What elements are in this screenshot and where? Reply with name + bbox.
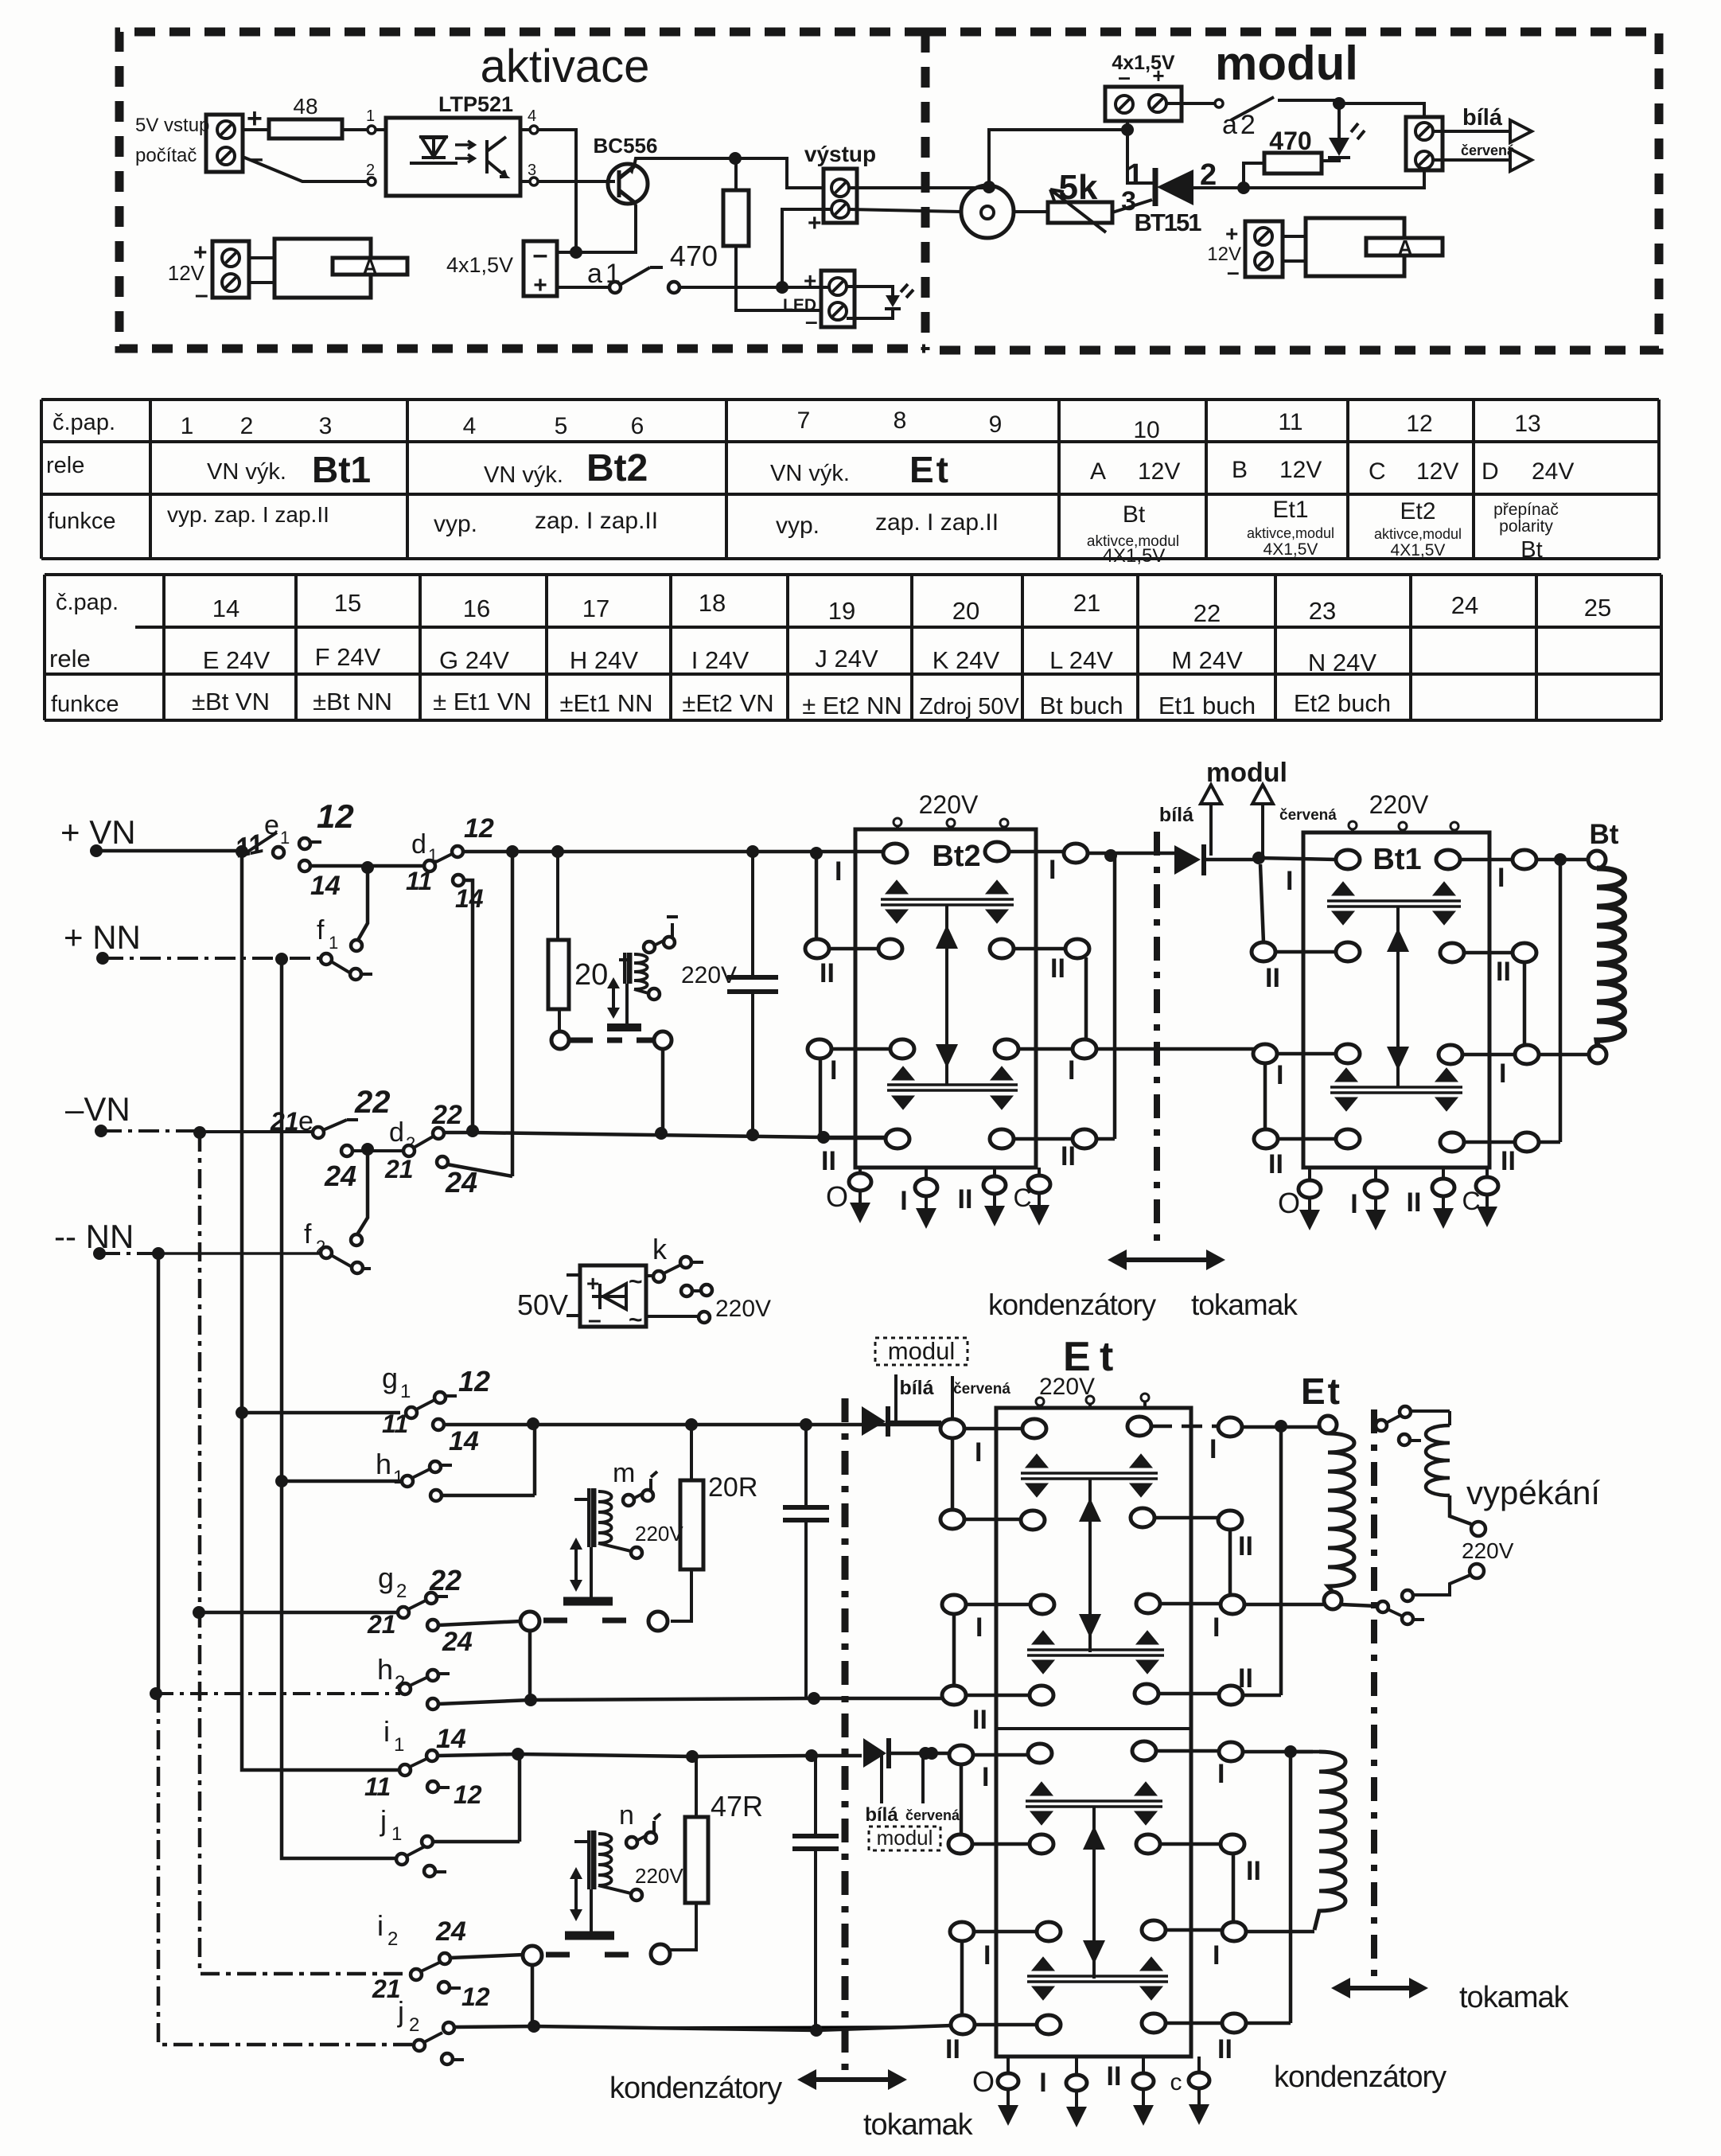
wire d1-14 contact down to -VN bus — [464, 880, 473, 1131]
resistor R3 470 modul — [1264, 153, 1322, 173]
Bt2 row4 contacts — [886, 1129, 909, 1148]
Et upper actuator arrow — [1088, 1479, 1092, 1652]
svg-text:±Et2 VN: ±Et2 VN — [682, 689, 773, 717]
wire a1 to LED plus node — [679, 286, 782, 289]
Et left link row7-row8 — [960, 1941, 964, 2015]
Et bottom terminal II — [1142, 2057, 1145, 2105]
svg-text:H 24V: H 24V — [570, 646, 638, 674]
transistor Q1 BC556 — [608, 164, 648, 204]
coil Et1 outer — [1319, 1416, 1337, 1433]
wire -VN bus continuation — [444, 1133, 886, 1137]
wire anode bus under terminal block — [1204, 170, 1424, 188]
Bt2 bottom terminal I — [925, 1168, 928, 1208]
resistor R5 20R — [671, 1425, 691, 1621]
svg-text:Bt1: Bt1 — [1373, 843, 1421, 876]
fuse F1 with ammeter A — [249, 258, 275, 283]
switch e1 — [247, 832, 277, 852]
svg-text:II: II — [1107, 2061, 1122, 2092]
wire pin1 to optocoupler — [376, 128, 386, 131]
Bt2 left column link row1-row2 — [815, 853, 819, 940]
svg-text:+: + — [586, 1271, 599, 1296]
Et row2 contacts — [940, 1510, 964, 1529]
svg-text:II: II — [1050, 953, 1065, 984]
svg-text:8: 8 — [894, 407, 907, 434]
moving contact dashes — [570, 1038, 653, 1043]
moving core arrow — [612, 981, 615, 1016]
armature plate n — [590, 1889, 593, 1932]
svg-text:Bt buch: Bt buch — [1039, 692, 1123, 719]
svg-text:2: 2 — [1200, 158, 1217, 192]
svg-text:počítač: počítač — [135, 145, 197, 166]
svg-text:modul: modul — [877, 1826, 933, 1850]
svg-text:7: 7 — [797, 407, 811, 434]
svg-text:1: 1 — [366, 107, 375, 125]
svg-text:červená: červená — [1279, 807, 1337, 824]
Et row8 contacts — [951, 2015, 975, 2034]
svg-text:2: 2 — [409, 2014, 419, 2036]
wire vystup plus to lamp and LED node — [782, 209, 961, 287]
svg-text:m: m — [613, 1458, 635, 1488]
wire j2 top to Et return bus — [454, 2025, 952, 2030]
switch k — [646, 1274, 653, 1277]
Bt2 contact pair symbols lower — [887, 1085, 1018, 1090]
Bt1 contact pair symbols upper — [1327, 901, 1461, 906]
svg-text:48: 48 — [293, 94, 317, 119]
svg-text:modul: modul — [1215, 37, 1358, 90]
svg-text:bílá: bílá — [1462, 105, 1503, 131]
svg-text:aktivce,modul: aktivce,modul — [1374, 526, 1462, 542]
Et lower lower pairs — [1027, 1976, 1168, 1982]
svg-text:22: 22 — [1193, 599, 1221, 627]
svg-text:12V: 12V — [1279, 457, 1322, 483]
wire g1-14 to Et upper bus — [444, 1423, 941, 1427]
svg-text:± Et2 NN: ± Et2 NN — [802, 692, 902, 719]
svg-text:O: O — [826, 1180, 848, 1213]
vertical bus -VN to switches g2 i2 — [200, 1133, 411, 1974]
svg-text:11: 11 — [364, 1772, 391, 1801]
svg-text:vypékání: vypékání — [1466, 1474, 1600, 1511]
svg-text:i: i — [384, 1715, 390, 1748]
svg-text:20: 20 — [574, 958, 608, 992]
svg-text:II: II — [1238, 1663, 1253, 1694]
svg-text:j: j — [380, 1804, 387, 1837]
node 470 tap — [1237, 181, 1250, 194]
svg-text:24: 24 — [435, 1916, 466, 1947]
svg-text:+ NN: + NN — [64, 918, 141, 956]
svg-text:24: 24 — [445, 1166, 477, 1199]
svg-text:k: k — [652, 1233, 668, 1265]
Et bottom terminal I — [1075, 2057, 1078, 2107]
svg-text:I: I — [835, 856, 842, 887]
Bt1 bottom terminal C — [1485, 1168, 1489, 1207]
svg-text:-- NN: -- NN — [54, 1218, 134, 1255]
svg-text:–: – — [533, 240, 548, 270]
pin 3 of U1 — [530, 177, 538, 185]
svg-text:470: 470 — [1269, 127, 1311, 155]
node emitter junction — [729, 152, 742, 165]
wire to vypekani coil — [1411, 1411, 1450, 1425]
wire e1 lower to d1 — [310, 864, 425, 868]
svg-text:14: 14 — [436, 1724, 466, 1754]
svg-text:Bt: Bt — [1123, 501, 1146, 528]
svg-text:G 24V: G 24V — [439, 646, 509, 674]
svg-text:16: 16 — [463, 595, 490, 622]
svg-text:3: 3 — [319, 413, 333, 439]
diode D5 between Bt2 and Bt1 — [1174, 845, 1201, 875]
svg-text:h: h — [376, 1448, 391, 1480]
svg-text:11: 11 — [382, 1409, 408, 1438]
switch vypekani upper — [1376, 1420, 1387, 1431]
wire vystup top to modul lamp node — [849, 186, 989, 189]
wire +NN bus — [103, 957, 321, 960]
svg-text:12V: 12V — [1416, 458, 1458, 485]
svg-text:I 24V: I 24V — [691, 646, 750, 674]
thyristor V1 BT151 — [1153, 168, 1158, 206]
vertical bus +NN to switches h1 j1 — [282, 959, 397, 1858]
wire i2-24 to n contact — [450, 1955, 524, 1958]
Et row7 contacts — [950, 1922, 974, 1941]
svg-text:21: 21 — [270, 1107, 299, 1136]
Bt1 bottom terminal O — [1308, 1168, 1311, 1210]
svg-text:červená: červená — [1461, 142, 1516, 158]
switch h1 — [275, 1475, 288, 1487]
svg-text:1: 1 — [181, 413, 194, 439]
svg-text:12: 12 — [1406, 411, 1432, 437]
svg-text:e: e — [264, 810, 279, 840]
svg-text:bílá: bílá — [1159, 804, 1193, 826]
svg-text:F 24V: F 24V — [315, 643, 381, 671]
wire LED plus from node — [782, 286, 829, 289]
svg-text:11: 11 — [1278, 409, 1302, 435]
svg-text:aktivce,modul: aktivce,modul — [1247, 525, 1334, 541]
wire 220V lower to switch — [1413, 1575, 1470, 1595]
resistor R6 47R — [670, 1756, 696, 1950]
wire battery plus to switch a1 — [557, 286, 609, 289]
wire +VN top bus — [463, 850, 884, 854]
connector arrow cervena — [1510, 149, 1532, 171]
svg-text:12: 12 — [454, 1780, 482, 1809]
terminal block 12V aktivace — [212, 241, 249, 298]
svg-text:220V: 220V — [1462, 1538, 1514, 1563]
connector arrow bila — [1510, 120, 1532, 142]
fuse F2 with ammeter A modul — [1283, 236, 1306, 261]
svg-text:–: – — [588, 1307, 602, 1333]
node lamp top — [983, 181, 995, 193]
svg-text:h: h — [377, 1653, 393, 1686]
svg-text:23: 23 — [1309, 597, 1336, 625]
svg-text:14: 14 — [212, 595, 239, 622]
capacitor C1 — [751, 852, 754, 1135]
svg-text:II: II — [821, 1146, 836, 1176]
svg-text:t: t — [1100, 1334, 1113, 1380]
Bt1 contact pair symbols lower — [1330, 1087, 1462, 1093]
terminal 220V vypekani lower — [1470, 1564, 1484, 1578]
switch h2 — [150, 1687, 162, 1700]
wire pin3 to Q1 base — [520, 180, 615, 183]
svg-text:Et: Et — [1301, 1370, 1342, 1412]
wire j1 top to bus junction — [433, 1754, 520, 1842]
transformer T1 l with 220V — [619, 958, 629, 961]
svg-text:č.pap.: č.pap. — [56, 590, 119, 615]
Et left link row3-row4 — [952, 1614, 956, 1686]
svg-text:zap. I zap.II: zap. I zap.II — [535, 508, 658, 534]
moving contact dashes m — [543, 1618, 637, 1624]
Et upper contact pairs — [1021, 1473, 1158, 1479]
svg-text:22: 22 — [431, 1100, 462, 1130]
wire f2 up to d2 node — [357, 1149, 368, 1234]
svg-text:f: f — [317, 915, 325, 945]
svg-text:±Bt NN: ±Bt NN — [313, 688, 392, 715]
PART5:ETBLOCKS — [609, 1334, 1600, 2142]
svg-text:aktivace: aktivace — [481, 41, 650, 92]
svg-text:2: 2 — [396, 1581, 407, 1602]
Bt2 bottom terminal II — [993, 1168, 996, 1206]
svg-text:f: f — [304, 1219, 312, 1250]
svg-text:13: 13 — [1514, 411, 1540, 437]
Bt1 row4 contacts — [1254, 1129, 1278, 1148]
svg-text:19: 19 — [828, 597, 855, 625]
coil Et2 outer — [1295, 1750, 1319, 1754]
switch a2 — [1215, 99, 1223, 107]
svg-text:2: 2 — [240, 413, 254, 439]
terminal block vystup — [824, 169, 857, 223]
svg-text:Et: Et — [909, 449, 951, 490]
wire -VN bus — [101, 1129, 200, 1133]
lead cervena Bt with arrow — [1261, 804, 1264, 858]
svg-text:Zdroj 50V: Zdroj 50V — [919, 694, 1019, 719]
svg-text:I: I — [1217, 1759, 1225, 1789]
Bt1 right link row2-row3 — [1523, 961, 1527, 1046]
separator arrow Et left — [813, 2077, 891, 2082]
svg-text:12: 12 — [461, 1983, 490, 2011]
Et row6 contacts — [948, 1834, 972, 1854]
svg-text:6: 6 — [631, 413, 644, 439]
wire k 220V — [646, 1315, 699, 1318]
Bt2 right column link row2-row3 — [1084, 957, 1088, 1040]
svg-text:g: g — [378, 1561, 394, 1594]
svg-text:Et1 buch: Et1 buch — [1158, 692, 1256, 719]
svg-text:II: II — [1238, 1531, 1253, 1561]
svg-text:č.pap.: č.pap. — [53, 410, 115, 435]
wire battery to switch a2 — [1167, 102, 1214, 105]
svg-text:tokamak: tokamak — [1459, 1981, 1570, 2014]
wire II return bus upper — [531, 1698, 943, 1700]
svg-text:22: 22 — [429, 1564, 461, 1597]
node battery minus — [570, 246, 582, 259]
svg-text:i: i — [377, 1909, 384, 1942]
svg-text:470: 470 — [670, 240, 718, 272]
svg-text:14: 14 — [455, 884, 484, 913]
svg-text:1: 1 — [329, 933, 338, 953]
svg-text:červená: červená — [953, 1381, 1010, 1398]
svg-text:O: O — [1278, 1187, 1300, 1219]
terminal block LED — [821, 271, 855, 327]
svg-text:12: 12 — [458, 1365, 490, 1398]
svg-text:D: D — [1482, 458, 1499, 485]
svg-text:+: + — [808, 210, 822, 236]
svg-text:J 24V: J 24V — [815, 645, 878, 673]
svg-text:1: 1 — [391, 1823, 402, 1845]
wire bila to arrow — [1434, 130, 1510, 133]
svg-text:+: + — [533, 272, 547, 298]
svg-text:II: II — [1265, 963, 1280, 993]
svg-text:M 24V: M 24V — [1171, 646, 1243, 674]
svg-text:17: 17 — [582, 595, 609, 622]
svg-text:± Et1 VN: ± Et1 VN — [433, 688, 531, 715]
transformer T3 n with 220V — [574, 1840, 589, 1843]
svg-text:Bt2: Bt2 — [932, 840, 980, 873]
modul dotted label Et upper — [875, 1338, 968, 1365]
svg-text:funkce: funkce — [51, 692, 119, 717]
switch vypekani lower — [1402, 1590, 1413, 1601]
moving contact dashes n — [546, 1952, 637, 1958]
Et lower actuator arrow — [1092, 1807, 1096, 1979]
svg-text:BT151: BT151 — [1134, 209, 1201, 236]
svg-text:21: 21 — [384, 1155, 414, 1183]
pin 2 of U1 — [368, 177, 376, 185]
svg-text:II: II — [1501, 1146, 1516, 1176]
resistor 48 — [243, 128, 367, 131]
svg-text:II: II — [972, 1705, 987, 1735]
svg-text:I: I — [982, 1762, 989, 1792]
svg-text:rele: rele — [46, 453, 84, 478]
rectifier 50V box — [580, 1265, 646, 1327]
relay block Bt2 — [855, 829, 1036, 1168]
diode D4 Et lower feed — [863, 1738, 886, 1768]
svg-text:Et1: Et1 — [1272, 497, 1308, 523]
lead bila Et upper — [894, 1374, 897, 1422]
svg-text:K 24V: K 24V — [933, 646, 1000, 674]
svg-text:výstup: výstup — [804, 142, 876, 166]
svg-text:4x1,5V: 4x1,5V — [446, 253, 513, 277]
svg-text:j: j — [397, 1995, 404, 2028]
svg-text:B: B — [1232, 457, 1248, 483]
svg-text:n: n — [619, 1800, 634, 1830]
lead bila Et lower — [880, 1755, 883, 1803]
svg-text:50V: 50V — [517, 1289, 568, 1321]
svg-text:A: A — [1090, 458, 1106, 485]
modul dotted label Et lower — [869, 1827, 940, 1850]
svg-text:2: 2 — [387, 1928, 398, 1950]
svg-text:E 24V: E 24V — [203, 646, 271, 674]
svg-text:modul: modul — [1206, 758, 1287, 788]
svg-text:Et2: Et2 — [1400, 498, 1435, 524]
svg-text:20R: 20R — [708, 1472, 757, 1503]
svg-text:I: I — [1213, 1612, 1220, 1643]
svg-text:BC556: BC556 — [594, 134, 658, 158]
svg-text:4X1,5V: 4X1,5V — [1263, 540, 1318, 559]
Bt2 bottom terminal C — [1038, 1168, 1041, 1205]
Bt1 row1 contacts — [1259, 858, 1337, 860]
svg-text:Bt1: Bt1 — [312, 449, 371, 490]
svg-text:I: I — [1499, 1059, 1506, 1089]
svg-text:I: I — [830, 1055, 837, 1086]
Bt2 contact pair symbols upper — [881, 899, 1014, 905]
svg-text:21: 21 — [1073, 589, 1100, 617]
svg-text:A: A — [1398, 236, 1413, 259]
svg-text:I: I — [1068, 1055, 1075, 1086]
svg-text:Bt: Bt — [1520, 537, 1542, 563]
svg-text:20: 20 — [952, 597, 979, 625]
svg-text:II: II — [1407, 1187, 1422, 1218]
Bt2 left column link row3-row4 — [819, 1059, 823, 1133]
svg-text:vyp.: vyp. — [776, 513, 820, 539]
svg-text:I: I — [975, 1437, 982, 1468]
svg-text:21: 21 — [372, 1975, 401, 2003]
svg-text:kondenzátory: kondenzátory — [609, 2072, 782, 2105]
wire pin4 down to battery minus node — [520, 130, 576, 252]
diode D3 Et upper feed — [862, 1406, 886, 1436]
svg-text:4X1,5V: 4X1,5V — [1391, 541, 1446, 559]
relay block Bt1 — [1303, 832, 1489, 1168]
wire row3 to vypekani pivot — [1341, 1604, 1376, 1606]
svg-text:červená: červená — [905, 1807, 960, 1823]
wire f1 up to d1 node — [358, 867, 368, 940]
diode D2 modul LED — [1322, 103, 1339, 161]
svg-text:I: I — [1049, 855, 1056, 885]
wire Q1 collector to battery minus node — [557, 202, 636, 252]
svg-text:přepínač: přepínač — [1493, 501, 1559, 519]
node LED plus — [776, 281, 788, 294]
lead cervena Et lower — [921, 1755, 925, 1803]
svg-text:LTP521: LTP521 — [438, 92, 513, 116]
svg-text:I: I — [1497, 863, 1505, 893]
svg-text:±Et1 NN: ±Et1 NN — [560, 689, 653, 717]
svg-text:I: I — [1350, 1189, 1357, 1219]
svg-text:14: 14 — [449, 1426, 479, 1456]
svg-text:5V vstup: 5V vstup — [135, 115, 209, 136]
svg-text:47R: 47R — [711, 1790, 763, 1823]
Bt1 left link row3-row4 — [1263, 1063, 1267, 1129]
svg-text:rele: rele — [49, 645, 91, 673]
vertical bus --NN to switches h2 j2 — [157, 1253, 161, 1694]
svg-text:–: – — [195, 282, 208, 308]
Et lower contact pairs — [1026, 1801, 1162, 1807]
coil Bt — [1588, 851, 1606, 868]
svg-text:C: C — [1013, 1183, 1031, 1212]
svg-text:220V: 220V — [919, 790, 979, 819]
svg-text:–: – — [1118, 64, 1131, 89]
svg-text:kondenzátory: kondenzátory — [988, 1289, 1157, 1321]
coil vypekani — [1426, 1425, 1471, 1524]
wire +VN bus start — [96, 849, 242, 853]
table 2 grid — [45, 575, 1661, 720]
Et bottom terminal O — [1007, 2057, 1010, 2105]
svg-text:II: II — [1246, 1856, 1261, 1886]
aktivace dashed enclosure — [119, 32, 925, 349]
svg-text:VN výk.: VN výk. — [207, 459, 286, 485]
node a2 output — [1333, 97, 1345, 110]
moving core arrow m — [574, 1542, 578, 1589]
svg-text:I: I — [1039, 2068, 1046, 2098]
svg-text:9: 9 — [989, 411, 1003, 438]
svg-text:vyp. zap. I zap.II: vyp. zap. I zap.II — [167, 502, 329, 527]
svg-text:2: 2 — [366, 162, 375, 179]
battery B2 modul 4x1,5V — [1105, 87, 1182, 121]
svg-text:tokamak: tokamak — [863, 2108, 974, 2142]
svg-text:II: II — [1496, 957, 1511, 987]
PART3:SWITCHFIELD — [54, 797, 1010, 2064]
svg-text:220V: 220V — [715, 1296, 771, 1322]
armature plate m — [590, 1547, 593, 1598]
svg-text:I: I — [900, 1186, 907, 1216]
svg-text:25: 25 — [1584, 594, 1611, 622]
Bt2 row3 contacts — [808, 1039, 831, 1059]
svg-text:11: 11 — [406, 867, 432, 895]
lead cervena Et upper — [951, 1376, 954, 1417]
wire m contact to II bus — [528, 1631, 532, 1700]
pin 4 of U1 — [530, 126, 538, 134]
